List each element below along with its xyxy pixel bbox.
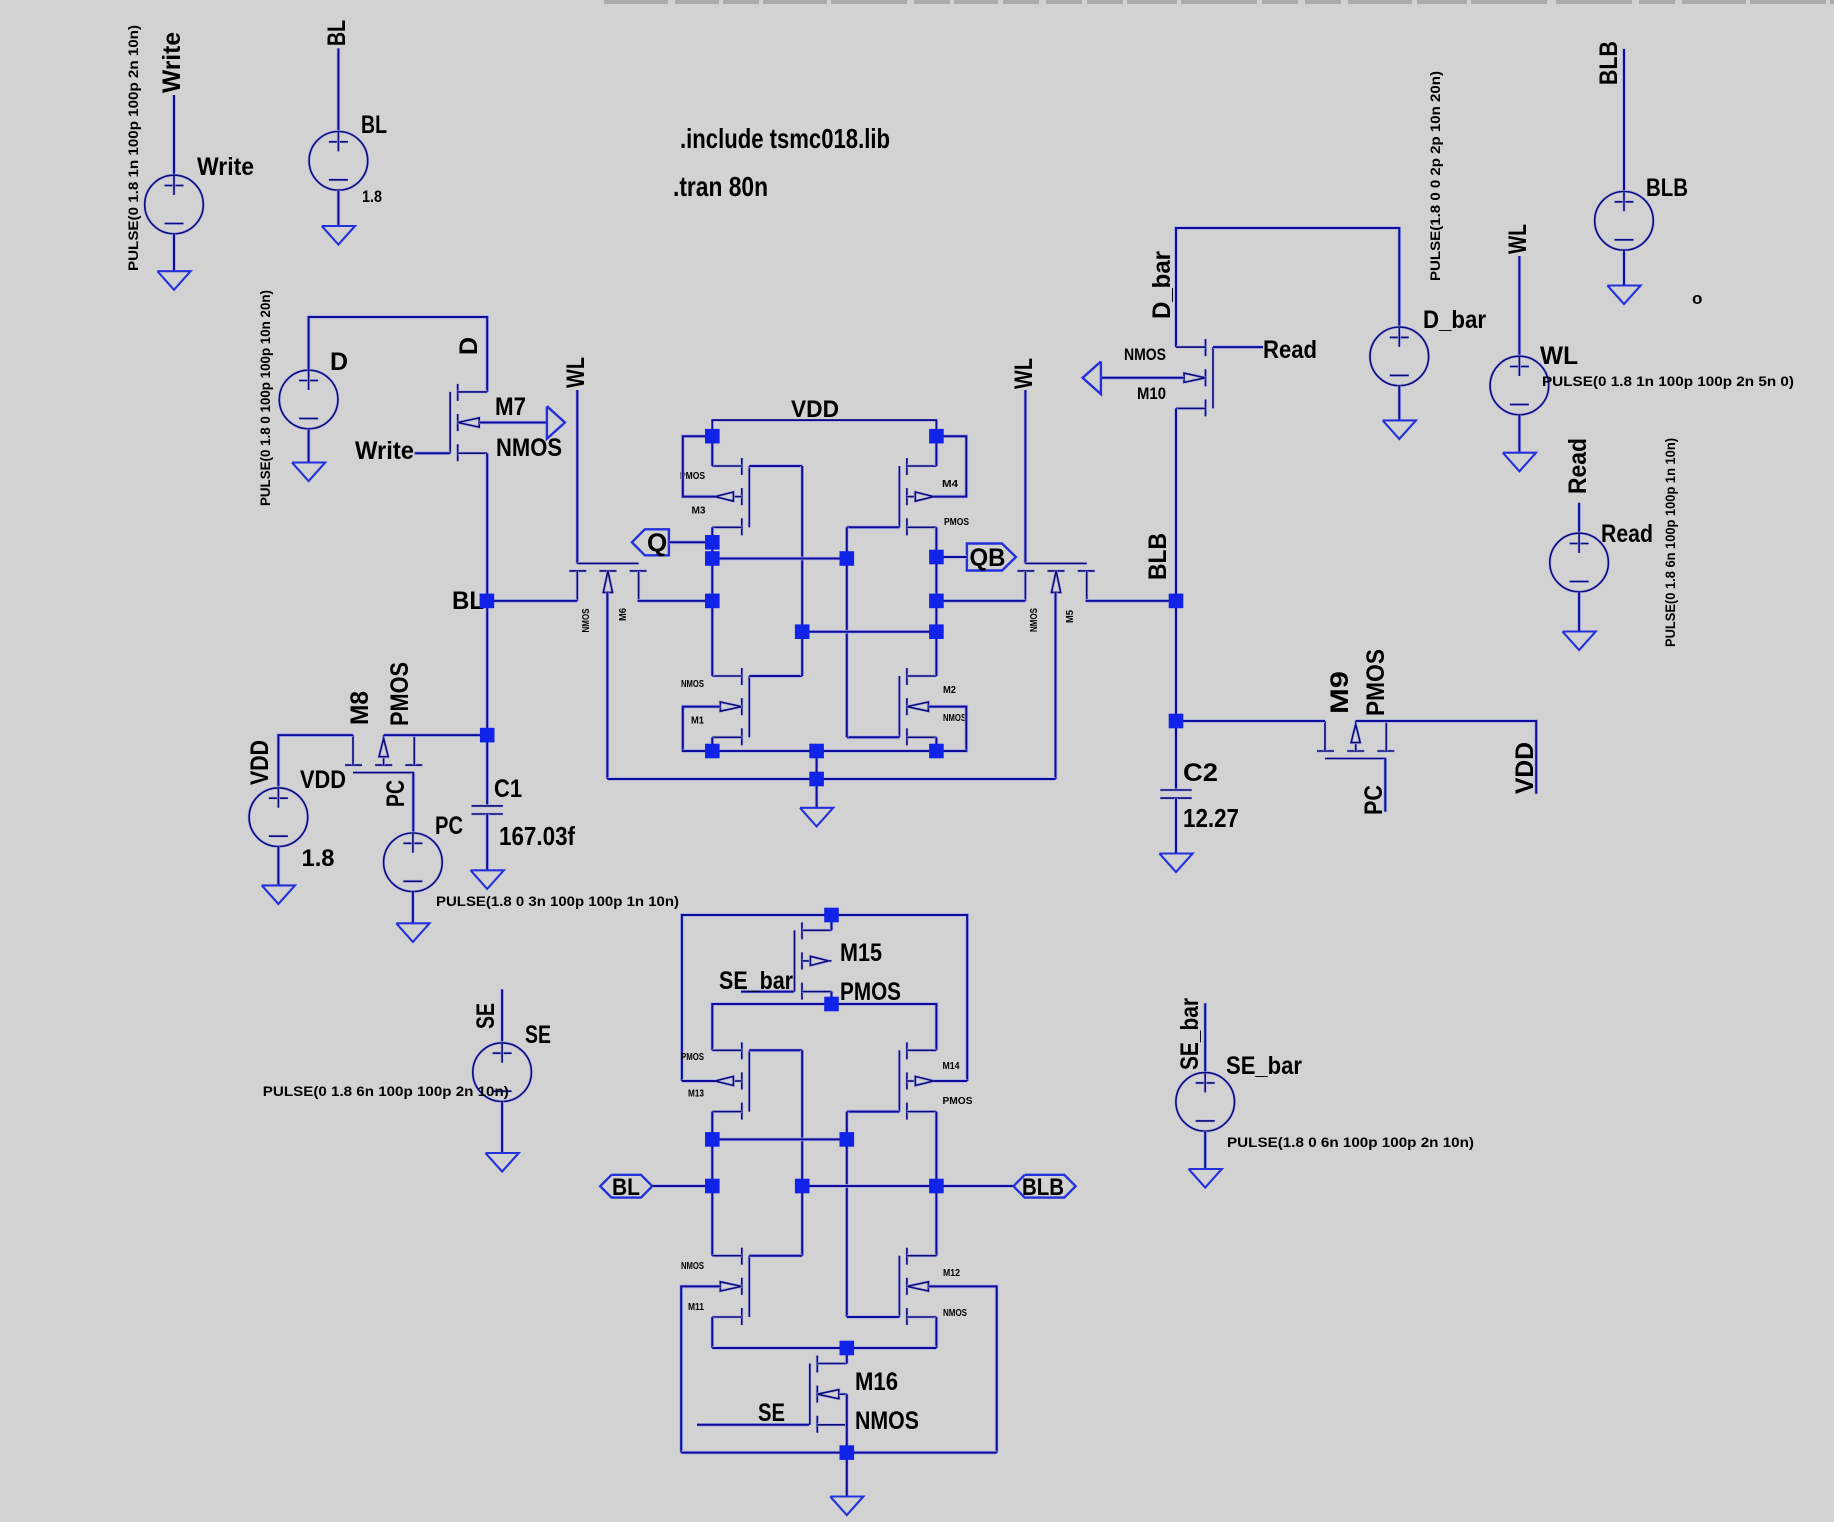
wire SA right column — [935, 1112, 939, 1256]
wire Read source to ground — [1577, 592, 1581, 632]
svg-text:PC: PC — [382, 780, 410, 807]
wire M5 bulk down — [1054, 593, 1058, 780]
svg-text:PMOS: PMOS — [386, 662, 414, 726]
transistor M6 (NMOS access) — [569, 563, 646, 601]
svg-text:M1: M1 — [691, 715, 704, 727]
wire QB column — [935, 527, 939, 676]
svg-text:D: D — [455, 337, 483, 355]
wire M2 bulk loop — [928, 707, 966, 751]
label M15 — [840, 939, 882, 967]
label NMOS (M2) — [943, 712, 966, 724]
svg-text:PULSE(1.8 0 0 2p 2p 10n 20n): PULSE(1.8 0 0 2p 2p 10n 20n) — [1427, 71, 1443, 281]
label Write (source name) — [197, 153, 254, 181]
wire M4 bulk loop — [934, 436, 967, 496]
transistor M15 (PMOS) — [795, 922, 832, 999]
label M12 — [943, 1267, 960, 1279]
ground (BLB) — [1607, 286, 1640, 305]
voltage source D_bar — [1370, 327, 1429, 386]
svg-text:SE: SE — [758, 1399, 785, 1427]
wire SA left column — [710, 1112, 714, 1256]
voltage source SE — [473, 1043, 532, 1102]
wire M9 source to VDD stub — [1356, 721, 1537, 794]
wire rail to ground — [815, 779, 819, 808]
svg-text:1.8: 1.8 — [302, 845, 335, 872]
wire M4 gate tap — [847, 525, 900, 529]
wire WL source to ground — [1518, 415, 1522, 453]
wire M6 to Q — [638, 599, 713, 603]
VDD rail (cell) — [712, 420, 936, 436]
wire rail4 to ground — [845, 1453, 849, 1497]
label BLB (source name) — [1646, 174, 1688, 202]
wire SA rail4 — [681, 1451, 997, 1455]
net label BLB (top, rotated) — [1595, 41, 1623, 85]
transistor M16 (NMOS) — [810, 1356, 847, 1433]
svg-text:M3: M3 — [692, 505, 706, 517]
ground (SE_bar) — [1189, 1169, 1222, 1188]
svg-text:NMOS: NMOS — [496, 434, 562, 462]
svg-text:PULSE(1.8 0 3n 100p 100p 1n 10: PULSE(1.8 0 3n 100p 100p 1n 10n) — [436, 893, 679, 909]
wire D_bar to M10 drain — [1176, 228, 1399, 347]
junction SA BL cross — [705, 1132, 720, 1147]
label M4 — [942, 478, 958, 490]
label SE (source name) — [525, 1021, 551, 1049]
net label D_bar (rotated) — [1148, 251, 1176, 319]
wire M1 gate tap — [749, 674, 802, 678]
wire SA top rail — [682, 915, 967, 1081]
svg-text:BLB: BLB — [1595, 41, 1623, 85]
svg-text:BL: BL — [452, 587, 484, 615]
svg-text:M2: M2 — [943, 684, 956, 696]
label M9 (rotated) — [1326, 671, 1354, 714]
transistor M14 (PMOS) — [899, 1042, 936, 1119]
ground (Write) — [157, 271, 190, 290]
label M5 (rotated) — [1064, 610, 1076, 623]
svg-text:NMOS: NMOS — [1124, 345, 1166, 364]
label M2 — [943, 684, 956, 696]
svg-text:M12: M12 — [943, 1267, 960, 1279]
svg-text:SE_bar: SE_bar — [719, 967, 793, 995]
transistor M10 (NMOS) — [1176, 339, 1213, 416]
wire VDD to M3 source — [710, 436, 714, 466]
svg-text:BLB: BLB — [1022, 1174, 1064, 1201]
junction BL node — [480, 594, 495, 609]
svg-text:NMOS: NMOS — [681, 678, 704, 690]
label Q — [647, 528, 667, 558]
wire VDD source to ground — [277, 847, 281, 886]
wire M11 source down — [710, 1317, 714, 1348]
label D_bar (source name) — [1423, 306, 1486, 334]
label NMOS (M6, rotated) — [580, 609, 592, 633]
wire BL source to ground — [337, 190, 341, 226]
label PMOS (M13) — [681, 1051, 704, 1063]
wire Write to M7 gate — [415, 451, 451, 455]
wire VDD to M8 source — [278, 735, 353, 788]
wire WL right — [1024, 390, 1028, 564]
label PMOS (M3) — [680, 470, 705, 482]
spice directive .tran — [673, 171, 768, 202]
junction SA right gates — [840, 1132, 855, 1147]
svg-text:VDD: VDD — [791, 396, 839, 423]
wire SA cross BL to right gates — [712, 1138, 847, 1142]
wire SE_bar to M15 gate — [741, 990, 794, 994]
wire BL node down to M8 node — [485, 601, 489, 735]
svg-text:SE_bar: SE_bar — [1176, 998, 1204, 1070]
junction Q cross attach — [705, 551, 720, 566]
svg-text:M9: M9 — [1326, 671, 1354, 714]
svg-text:NMOS: NMOS — [943, 1307, 967, 1319]
label BL (SA flag) — [612, 1174, 640, 1201]
svg-text:PULSE(1.8 0 6n 100p 100p 2n 10: PULSE(1.8 0 6n 100p 100p 2n 10n) — [1227, 1134, 1474, 1150]
wire M8 gate to PC source — [411, 773, 415, 833]
net label BLB (cell, rotated) — [1144, 533, 1172, 580]
wire M15 drain to rail — [830, 915, 834, 930]
junction VDD left — [705, 429, 720, 444]
transistor M11 (NMOS) — [712, 1248, 749, 1325]
label D (source name) — [330, 348, 348, 376]
svg-text:M11: M11 — [688, 1301, 704, 1313]
wire D_bar source to ground — [1398, 386, 1402, 421]
wire M3 bulk loop — [683, 436, 715, 496]
ground (SA) — [830, 1497, 863, 1516]
wire SA rail3 — [712, 1346, 936, 1350]
ground (cell) — [800, 808, 833, 827]
wire M13 gate tap — [749, 1049, 802, 1053]
label NMOS (M12) — [943, 1307, 967, 1319]
svg-text:Q: Q — [647, 528, 667, 558]
svg-text:SE: SE — [525, 1021, 551, 1049]
label M3 — [692, 505, 706, 517]
transistor M1 (NMOS) — [712, 668, 749, 745]
svg-text:VDD: VDD — [246, 740, 274, 785]
net label VDD (M9, rotated) — [1511, 742, 1539, 794]
port flag QB — [967, 544, 1016, 571]
wire M8 drain to BL node — [384, 733, 488, 737]
svg-text:BLB: BLB — [1144, 533, 1172, 580]
stray label o — [1692, 289, 1702, 308]
junction right gates node — [840, 551, 855, 566]
wire M7 source to BL node — [485, 453, 489, 601]
label PMOS (M9, rotated) — [1362, 649, 1390, 716]
wire cross Q to right gates — [712, 557, 847, 561]
ground (Read) — [1563, 632, 1596, 651]
transistor M9 (PMOS) — [1317, 721, 1394, 759]
svg-text:M6: M6 — [617, 608, 629, 621]
label M8 (rotated) — [346, 691, 374, 725]
label Write (M7 gate) — [355, 437, 414, 465]
wire M16 source/bulk down — [845, 1394, 849, 1452]
svg-text:WL: WL — [562, 357, 590, 388]
wire M11 gate tap — [749, 1254, 802, 1258]
wire cell source rail — [683, 749, 967, 753]
voltage source SE_bar — [1176, 1073, 1235, 1132]
svg-text:1.8: 1.8 — [362, 187, 382, 206]
net label Write (rotated) — [158, 32, 186, 93]
net label Read (M10 gate) — [1263, 336, 1317, 364]
label NMOS (M11) — [681, 1260, 704, 1272]
svg-text:PMOS: PMOS — [1362, 649, 1390, 716]
label PMOS (M8, rotated) — [386, 662, 414, 726]
label NMOS (M7) — [496, 434, 562, 462]
svg-text:M16: M16 — [855, 1368, 898, 1396]
svg-text:.tran 80n: .tran 80n — [673, 171, 768, 202]
value label 1.8 (VDD) — [302, 845, 335, 872]
junction BL/M8/C1 node — [480, 728, 495, 743]
wire SE_bar source to ground — [1203, 1131, 1207, 1169]
label BLB (SA flag) — [1022, 1174, 1064, 1201]
transistor M2 (NMOS) — [899, 668, 936, 745]
svg-text:VDD: VDD — [1511, 742, 1539, 794]
label BL (source name) — [361, 111, 387, 139]
label C1 — [494, 775, 522, 803]
svg-text:Write: Write — [355, 437, 414, 465]
svg-text:SE: SE — [472, 1003, 500, 1029]
wire PC source to ground — [411, 892, 415, 924]
wire M1 source to rail — [710, 737, 714, 751]
svg-text:NMOS: NMOS — [1028, 608, 1040, 632]
svg-text:o: o — [1692, 289, 1702, 308]
net label SE_bar (rotated) — [1176, 998, 1204, 1070]
wire D source to ground — [307, 429, 311, 463]
net label VDD (cell) — [791, 396, 839, 423]
net label BL (rotated) — [323, 20, 351, 46]
wire cell bulk rail — [607, 777, 1055, 781]
net label SE (M16 gate) — [758, 1399, 785, 1427]
wire BL label to source — [337, 48, 341, 131]
label PMOS (M15) — [840, 978, 901, 1006]
voltage source Write — [145, 175, 204, 234]
wire M12 gate tap — [847, 1315, 900, 1319]
wire SE label to source — [500, 989, 504, 1043]
spice directive .include — [680, 123, 890, 154]
svg-text:M14: M14 — [943, 1060, 960, 1072]
ground (C2) — [1159, 854, 1192, 873]
ground (D_bar) — [1383, 420, 1416, 439]
value label 1.8 (BL) — [362, 187, 382, 206]
wire BLB flag to column — [936, 1184, 1013, 1188]
junction bulk rail mid — [809, 772, 824, 787]
svg-text:WL: WL — [1540, 342, 1578, 370]
label M1 — [691, 715, 704, 727]
junction source rail right — [929, 744, 944, 759]
port flag Q — [632, 529, 669, 555]
wire Write label to source — [172, 95, 176, 176]
svg-text:PMOS: PMOS — [944, 516, 969, 528]
ground (WL) — [1503, 453, 1536, 472]
svg-text:PMOS: PMOS — [840, 978, 901, 1006]
window edge artifact — [604, 0, 1834, 4]
net label VDD (M8, rotated) — [246, 740, 274, 785]
wire M14 bulk loop — [934, 1079, 968, 1083]
svg-text:VDD: VDD — [300, 766, 346, 794]
capacitor C2 — [1160, 790, 1191, 798]
label SE_bar (source name) — [1226, 1052, 1302, 1080]
label M16 — [855, 1368, 898, 1396]
junction left gates node — [795, 624, 810, 639]
svg-text:QB: QB — [970, 544, 1006, 572]
wire D source to M7 drain — [309, 317, 488, 392]
wire C2 to ground — [1174, 798, 1178, 853]
svg-text:167.03f: 167.03f — [499, 821, 575, 851]
net label SE (rotated) — [472, 1003, 500, 1029]
ground (BL) — [322, 226, 355, 245]
wire Q flag to column — [669, 540, 712, 544]
svg-text:NMOS: NMOS — [943, 712, 966, 724]
svg-text:PMOS: PMOS — [681, 1051, 704, 1063]
svg-text:D_bar: D_bar — [1148, 251, 1176, 319]
wire M10 source to BLB column — [1174, 408, 1178, 601]
svg-text:M5: M5 — [1064, 610, 1076, 623]
junction SA rail4 — [840, 1445, 855, 1460]
port flag BLB (SA) — [1013, 1175, 1075, 1198]
wire M1 bulk loop — [683, 707, 721, 751]
label QB — [970, 544, 1006, 572]
junction VDD right — [929, 429, 944, 444]
svg-text:PULSE(0 1.8 6n 100p 100p 2n 10: PULSE(0 1.8 6n 100p 100p 2n 10n) — [263, 1083, 509, 1099]
wire BL flag to column — [652, 1184, 712, 1188]
svg-text:Read: Read — [1601, 520, 1653, 548]
label M13 — [688, 1088, 704, 1100]
label M10 — [1137, 384, 1166, 403]
svg-text:C1: C1 — [494, 775, 522, 803]
junction SA top rail — [824, 908, 839, 923]
arrow flag to WL (M7) — [547, 406, 565, 439]
voltage source PC — [384, 833, 443, 892]
wire M14 gate tap — [847, 1110, 900, 1114]
wire BLB node to M9 node — [1174, 601, 1178, 721]
wire M2 source to rail — [935, 737, 939, 751]
junction SA BLB node — [929, 1179, 944, 1194]
transistor M8 (PMOS) — [345, 735, 422, 773]
svg-text:PULSE(0 1.8 1n 100p 100p 2n 5n: PULSE(0 1.8 1n 100p 100p 2n 5n 0) — [1542, 373, 1794, 389]
transistor M12 (NMOS) — [899, 1248, 936, 1325]
ground (VDD) — [262, 885, 295, 904]
label M7 — [495, 393, 526, 421]
svg-text:NMOS: NMOS — [681, 1260, 704, 1272]
wire Q column — [710, 527, 714, 676]
transistor M7 (NMOS) — [450, 384, 487, 461]
transistor M13 (PMOS) — [712, 1042, 749, 1119]
net label BL (cell) — [452, 587, 484, 615]
wire VDD to M4 source — [935, 436, 939, 466]
svg-text:PULSE(0 1.8 1n 100p 100p 2n 10: PULSE(0 1.8 1n 100p 100p 2n 10n) — [125, 25, 141, 271]
wire M10 bulk lead — [1101, 376, 1184, 380]
wire M2 gate tap — [847, 735, 900, 739]
label PC (source name) — [435, 812, 463, 840]
voltage source VDD — [249, 788, 308, 847]
svg-text:D: D — [330, 348, 348, 376]
wire BLB node to M9 drain — [1176, 719, 1325, 723]
label M11 — [688, 1301, 704, 1313]
transistor M3 (PMOS) — [712, 458, 749, 535]
svg-text:.include tsmc018.lib: .include tsmc018.lib — [680, 123, 890, 154]
junction source rail mid — [809, 744, 824, 759]
wire SA cross BLB to left gates — [802, 1184, 936, 1188]
voltage source D — [279, 370, 338, 429]
wire M16 drain to rail3 — [845, 1348, 849, 1364]
svg-text:D_bar: D_bar — [1423, 306, 1486, 334]
junction SA rail2 — [824, 997, 839, 1012]
wire SA left gate column — [800, 1050, 804, 1255]
wire WL label to source — [1518, 256, 1522, 356]
svg-text:PULSE(0 1.8 0 100p 100p 10n 20: PULSE(0 1.8 0 100p 100p 10n 20n) — [257, 290, 273, 506]
label WL (source name) — [1540, 342, 1578, 370]
label Read (source name) — [1601, 520, 1653, 548]
junction QB cross attach — [929, 624, 944, 639]
wire M13 bulk loop — [682, 1079, 715, 1083]
junction QB flag attach — [929, 550, 944, 565]
label C2 — [1183, 759, 1218, 787]
svg-text:PC: PC — [435, 812, 463, 840]
ground (D) — [292, 463, 325, 482]
wire BL to M6 — [487, 599, 577, 603]
wire M12 bulk loop — [928, 1286, 996, 1452]
arrow flag (M10 bulk) — [1083, 362, 1101, 395]
label NMOS (M10) — [1124, 345, 1166, 364]
svg-text:M10: M10 — [1137, 384, 1166, 403]
net label WL (left, rotated) — [562, 357, 590, 388]
svg-text:Write: Write — [158, 32, 186, 93]
wire M11 bulk loop — [681, 1286, 720, 1452]
wire M7 bulk to WL arrow — [479, 421, 547, 425]
svg-text:M8: M8 — [346, 691, 374, 725]
wire QB flag to column — [936, 555, 967, 559]
label NMOS (M1) — [681, 678, 704, 690]
svg-text:BL: BL — [612, 1174, 640, 1201]
wire left gate column — [800, 466, 804, 676]
wire node to C2 — [1174, 721, 1178, 790]
wire M10 gate to Read — [1213, 345, 1263, 349]
value label PULSE Read (rotated) — [1662, 438, 1678, 647]
svg-text:NMOS: NMOS — [855, 1407, 919, 1435]
voltage source BL — [309, 132, 368, 191]
svg-text:BLB: BLB — [1646, 174, 1688, 202]
net label Read (rotated) — [1564, 438, 1592, 494]
value label PULSE D_bar (rotated) — [1427, 71, 1443, 281]
wire Read label to source — [1577, 503, 1581, 533]
svg-text:SE_bar: SE_bar — [1226, 1052, 1302, 1080]
svg-text:12.27: 12.27 — [1183, 803, 1239, 833]
wire rail stub — [815, 751, 819, 779]
ground (SE) — [486, 1153, 519, 1172]
svg-text:WL: WL — [1504, 224, 1532, 254]
svg-text:Write: Write — [197, 153, 254, 181]
wire M12 source down — [935, 1317, 939, 1348]
svg-text:WL: WL — [1010, 358, 1038, 389]
svg-text:Read: Read — [1263, 336, 1317, 364]
wire M5 to BLB — [1086, 599, 1176, 603]
value label PULSE D (rotated) — [257, 290, 273, 506]
svg-text:M4: M4 — [942, 478, 958, 490]
svg-text:M7: M7 — [495, 393, 526, 421]
voltage source WL — [1490, 356, 1549, 415]
junction SA left gates — [795, 1179, 810, 1194]
value label PULSE WL — [1542, 373, 1794, 389]
port flag BL (SA) — [600, 1175, 652, 1198]
transistor M5 (NMOS access) — [1017, 563, 1094, 601]
svg-text:BL: BL — [323, 20, 351, 46]
wire QB to M5 — [936, 599, 1025, 603]
wire cross QB to left gates — [802, 630, 936, 634]
transistor M4 (PMOS) — [899, 458, 936, 535]
wire M3 gate tap — [749, 464, 802, 468]
svg-text:Read: Read — [1564, 438, 1592, 494]
label M6 (rotated) — [617, 608, 629, 621]
junction Q flag attach — [705, 535, 720, 550]
wire M15 source to rail2 — [830, 992, 834, 1004]
wire SE source to ground — [500, 1102, 504, 1154]
value label PULSE SE_bar — [1227, 1134, 1474, 1150]
value label 12.27 — [1183, 803, 1239, 833]
